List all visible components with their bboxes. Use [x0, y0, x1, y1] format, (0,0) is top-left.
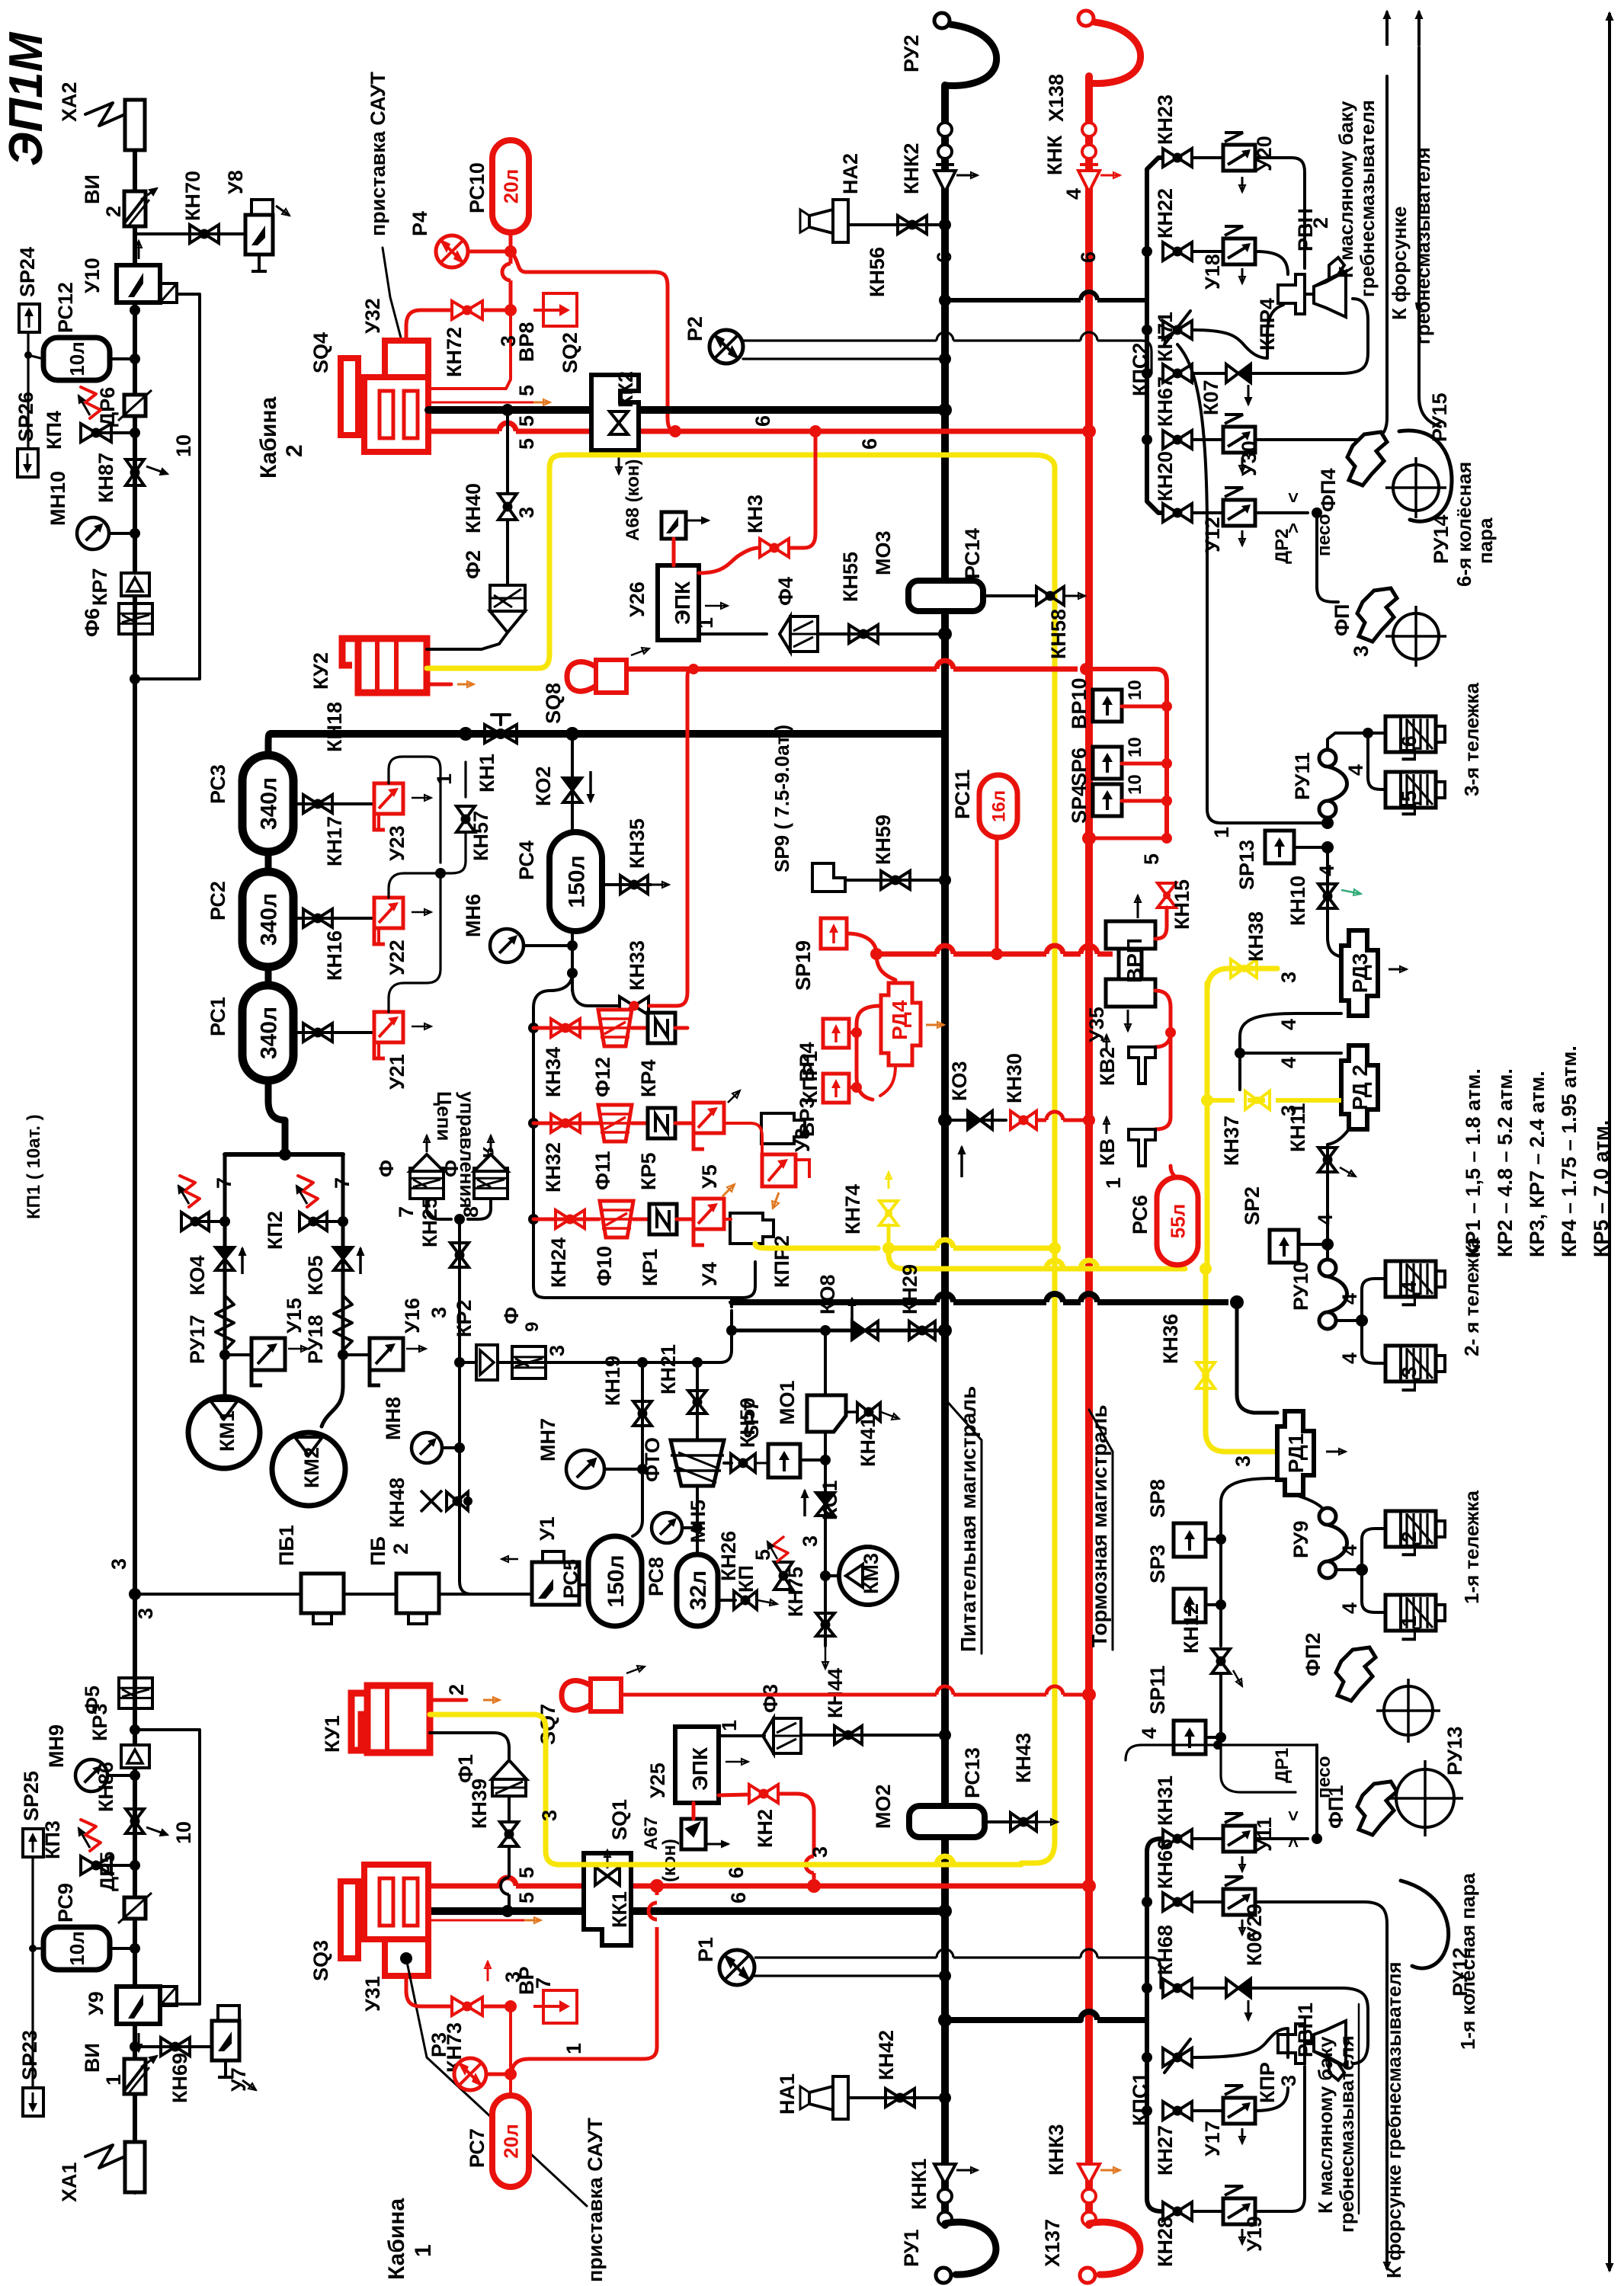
- node SP-RS12: [24, 351, 32, 359]
- wheel circle top2: [1385, 606, 1446, 667]
- component SP23: [23, 2088, 43, 2116]
- svg-text:SP23: SP23: [18, 2030, 41, 2080]
- arrow KP4: [78, 395, 90, 415]
- wire gremne collector bot: [1147, 300, 1161, 513]
- check KO8: [852, 1321, 878, 1340]
- svg-text:ВИ: ВИ: [81, 2043, 104, 2073]
- component SQ7: [562, 1679, 621, 1711]
- svg-text:КН55: КН55: [839, 552, 862, 602]
- valve KN44: [834, 1726, 862, 1744]
- svg-text:У23: У23: [386, 825, 408, 861]
- svg-text:3: 3: [1232, 1455, 1254, 1467]
- svg-text:Ф10: Ф10: [593, 1246, 616, 1286]
- wire comp header: [225, 1152, 343, 1157]
- wire yellow trunk vertical: [1052, 466, 1058, 1843]
- wire SP2 stub: [1299, 1243, 1328, 1246]
- svg-text:>: >: [1283, 523, 1304, 533]
- svg-text:У8: У8: [224, 170, 247, 194]
- node KV j: [1165, 1027, 1176, 1038]
- wire sand 2290: [1126, 1745, 1317, 1760]
- exhaust KN74: [886, 1172, 892, 1189]
- svg-text:КН34: КН34: [542, 1047, 565, 1097]
- wire U12 east: [1255, 511, 1308, 514]
- gauge MN7: [566, 1450, 604, 1488]
- wire EPK 1-line: [699, 632, 767, 636]
- svg-text:КП4: КП4: [43, 411, 66, 450]
- wire KN71-KO7: [1192, 372, 1225, 375]
- valve KN12: [1212, 1649, 1230, 1673]
- filter F7 tri: [410, 1154, 444, 1171]
- valve KN34: [551, 1019, 580, 1037]
- svg-text:Р1: Р1: [694, 1937, 717, 1962]
- svg-text:Ф4: Ф4: [774, 577, 797, 606]
- svg-text:Ф2: Ф2: [462, 550, 485, 579]
- wire KN57 join: [440, 832, 466, 873]
- cylinder C2: [1385, 1511, 1445, 1547]
- node kr2 j915: [692, 1357, 703, 1368]
- wire kn50 stub: [724, 1462, 732, 1465]
- svg-text:1: 1: [694, 617, 717, 629]
- svg-text:КНК3: КНК3: [1045, 2124, 1068, 2176]
- node colb 2770: [1142, 2105, 1152, 2116]
- coupling RU11: [1319, 750, 1347, 818]
- svg-text:4: 4: [1338, 1293, 1361, 1305]
- wire U21 pilot: [389, 873, 440, 1012]
- reservoir RS3: [242, 755, 293, 852]
- reservoir RS2: [242, 872, 293, 967]
- valve KN55: [849, 625, 878, 643]
- exhaust KN10: [1341, 889, 1361, 895]
- slash KPS2: [1164, 311, 1190, 344]
- svg-text:КО8: КО8: [816, 1275, 839, 1315]
- wire p1 upper bend: [1151, 1958, 1161, 1988]
- svg-text:РС10: РС10: [466, 162, 488, 213]
- node chain-407: [130, 305, 140, 315]
- node yel j1582: [1200, 1263, 1212, 1275]
- svg-text:КН22: КН22: [1154, 188, 1177, 239]
- node red875 j902: [688, 664, 699, 674]
- svg-text:ДР1: ДР1: [1272, 1748, 1292, 1783]
- wire F4-KN55: [818, 632, 945, 636]
- wire kp2 stub: [315, 1220, 343, 1223]
- node sp8 j: [1216, 1534, 1226, 1545]
- wire RS3 elbow: [268, 734, 271, 755]
- wire SP25-SP23: [31, 1857, 34, 2088]
- svg-text:КН75: КН75: [784, 1567, 807, 1617]
- node yel j1166: [882, 1242, 895, 1254]
- svg-text:У35: У35: [1085, 1007, 1108, 1042]
- gauge MN6: [490, 929, 524, 962]
- valve KN37: [1245, 1091, 1270, 1109]
- svg-text:SP26: SP26: [14, 392, 37, 442]
- svg-text:КН70: КН70: [181, 171, 204, 221]
- svg-text:КН2: КН2: [754, 1809, 777, 1848]
- solenoid У22: [374, 898, 403, 944]
- wire U4-KPR2: [724, 1218, 731, 1221]
- node chain-2270: [130, 1724, 140, 1735]
- solenoid У23: [374, 783, 403, 830]
- svg-text:МН7: МН7: [537, 1418, 559, 1462]
- wire KR5-U5: [675, 1122, 693, 1125]
- exhaust KN50: [756, 1460, 779, 1466]
- wire x1584 upper: [1177, 344, 1207, 533]
- svg-text:5: 5: [515, 415, 538, 427]
- filter F2: [490, 585, 525, 632]
- wire KN57 down: [464, 762, 466, 797]
- svg-text:9: 9: [522, 1322, 543, 1332]
- svg-text:приставка САУТ: приставка САУТ: [367, 72, 389, 236]
- filter F4: [780, 616, 818, 652]
- wire mn7 stub: [604, 1468, 642, 1471]
- svg-text:ФП4: ФП4: [1317, 469, 1340, 512]
- solenoid U11: [1223, 1814, 1255, 1852]
- node brake j1470: [1083, 1114, 1095, 1126]
- svg-text:SP2: SP2: [1241, 1186, 1264, 1225]
- wheel circle fp1: [1387, 1760, 1463, 1836]
- svg-text:КН41: КН41: [857, 1417, 879, 1467]
- svg-text:КК2: КК2: [614, 371, 637, 408]
- svg-text:МО1: МО1: [776, 1380, 799, 1425]
- svg-text:МН5: МН5: [687, 1500, 709, 1543]
- node u16 j: [338, 1350, 348, 1360]
- node chain-471: [130, 354, 140, 364]
- svg-text:6: 6: [725, 1867, 748, 1878]
- wire brake trunk tail: [1085, 2181, 1093, 2225]
- wire KR4 east: [675, 1026, 687, 1030]
- svg-text:1: 1: [411, 2244, 436, 2257]
- filter F10: [600, 1201, 633, 1237]
- wire KN73-j: [483, 2005, 511, 2009]
- wire ru11 up: [1328, 733, 1364, 750]
- svg-text:У9: У9: [85, 1991, 107, 2015]
- wire RS12 to chain: [110, 357, 135, 360]
- component KR7: [121, 573, 149, 596]
- wire SP13 stub: [1294, 846, 1328, 849]
- wire RU15 arc: [1399, 431, 1452, 521]
- node c6 j: [1363, 728, 1373, 738]
- component PB1: [301, 1574, 344, 1624]
- node feed j2277: [939, 1729, 951, 1741]
- wire kn39 to trunk: [501, 1846, 509, 1911]
- node X138 end circle: [1078, 11, 1094, 26]
- svg-text:У15: У15: [283, 1298, 306, 1333]
- exhaust U32 arrow: [533, 399, 550, 405]
- node red j1070: [809, 425, 822, 437]
- leader torm: [1089, 1410, 1113, 1452]
- wire kr2 row: [460, 1361, 697, 1364]
- valve KN56: [898, 216, 927, 234]
- spring KP1 zigzag: [180, 1176, 200, 1207]
- wire КН18 row: [293, 802, 374, 805]
- svg-text:КН15: КН15: [1171, 879, 1193, 930]
- valve KK2 bowtie: [610, 411, 628, 434]
- node RU2 end circle: [934, 13, 950, 28]
- svg-text:3: 3: [107, 1558, 130, 1570]
- node SAUT leader dot b: [400, 1952, 412, 1964]
- exhaust A67: [707, 1841, 729, 1847]
- svg-text:2: 2: [1309, 217, 1332, 229]
- svg-text:10: 10: [172, 1821, 195, 1844]
- svg-text:КР1: КР1: [639, 1248, 661, 1286]
- svg-text:2: 2: [282, 444, 307, 457]
- node ko8 j1083: [820, 1325, 831, 1336]
- wire red5 top: [428, 423, 1089, 431]
- svg-text:пара: пара: [1474, 517, 1497, 564]
- component VR8: [533, 293, 577, 326]
- svg-text:4: 4: [1338, 1545, 1361, 1556]
- wire u15 stub: [225, 1353, 251, 1356]
- svg-text:РС14: РС14: [961, 528, 984, 579]
- arrow K06: [1245, 2000, 1251, 2020]
- svg-text:К06: К06: [1243, 1930, 1266, 1966]
- svg-text:10: 10: [1125, 737, 1145, 757]
- check KO5: [334, 1247, 352, 1270]
- valve KN48x: [421, 1490, 442, 1512]
- wire RS9 to chain: [110, 1947, 135, 1950]
- svg-text:Ф: Ф: [500, 1307, 523, 1324]
- node rd2 j1382: [1235, 1048, 1245, 1058]
- svg-text:У10: У10: [81, 258, 104, 293]
- svg-text:ВИ: ВИ: [81, 174, 104, 204]
- svg-text:РД1: РД1: [1284, 1433, 1308, 1473]
- wire sp7 stub: [800, 1458, 825, 1462]
- svg-text:55л: 55л: [1166, 1204, 1189, 1238]
- valve KN58: [1036, 587, 1064, 605]
- valve KN2: [749, 1785, 778, 1803]
- valve КН16: [303, 1023, 332, 1042]
- exhaust KU1: [483, 1697, 500, 1703]
- wire KR1-U4: [677, 1218, 693, 1221]
- wire kn10-rd3: [1328, 937, 1343, 957]
- wire yellow bottom: [430, 1714, 1021, 1865]
- exhaust U1: [501, 1556, 518, 1562]
- check KO2: [563, 778, 581, 802]
- exhaust KN58: [1065, 593, 1085, 599]
- exhaust KNK1: [956, 2167, 978, 2173]
- leader SAUT bottom: [406, 1958, 587, 2206]
- component XA2: [125, 100, 145, 150]
- wire RS6 link: [1171, 1166, 1177, 1177]
- component KPR3: [1278, 2024, 1305, 2063]
- wire SP24-SP26: [27, 332, 29, 449]
- svg-text:КР3: КР3: [88, 1703, 111, 1741]
- node R3 junction: [504, 2068, 517, 2080]
- valve КН18: [303, 795, 332, 813]
- exhaust U3: [772, 1193, 779, 1209]
- svg-text:1: 1: [1102, 1177, 1125, 1189]
- wire right pipe top: [1417, 47, 1421, 396]
- svg-text:КР5: КР5: [637, 1152, 660, 1190]
- wire x1584 sp13: [1207, 533, 1323, 823]
- node peso dot: [1312, 507, 1322, 518]
- wire red 1line: [529, 1886, 657, 2059]
- component VR7: [533, 1990, 577, 2023]
- svg-text:РУ1: РУ1: [900, 2230, 923, 2267]
- component NA1 horn: [800, 2076, 848, 2119]
- svg-text:У20: У20: [1253, 136, 1276, 171]
- wire col b top: [1147, 1839, 1161, 1852]
- svg-text:6: 6: [858, 438, 881, 450]
- wire trunk2651: [945, 2017, 1081, 2023]
- svg-text:КН35: КН35: [626, 818, 649, 869]
- svg-text:У11: У11: [1253, 1817, 1276, 1852]
- wire U32 to KN72: [406, 310, 451, 341]
- svg-text:SP25: SP25: [20, 1771, 43, 1821]
- exhaust U31 arrow: [524, 1917, 541, 1923]
- reservoir RS7: [492, 2095, 529, 2187]
- valve KNK2: [934, 123, 956, 192]
- valve KN70: [190, 225, 219, 243]
- spring KP zig1: [773, 1537, 788, 1561]
- wheel circle fp2: [1376, 1679, 1440, 1743]
- svg-text:Ф12: Ф12: [591, 1057, 614, 1097]
- svg-text:КП2: КП2: [264, 1211, 287, 1250]
- wire 1709 start: [730, 1302, 732, 1307]
- wire RS4 down: [571, 931, 574, 991]
- wire right edge pipe: [1608, 47, 1611, 2233]
- valve KN68: [1163, 1979, 1192, 1997]
- wire mn8 stub: [442, 1446, 460, 1449]
- wire U30 east: [1255, 76, 1387, 440]
- svg-text:ЭПК: ЭПК: [671, 581, 694, 625]
- node u15 j: [219, 1350, 230, 1360]
- arrow grease top1: [1384, 11, 1390, 46]
- svg-text:ДР6: ДР6: [96, 387, 119, 427]
- svg-text:КН67: КН67: [1154, 376, 1177, 427]
- node j2508-666: [501, 1905, 514, 1917]
- component PB2: [396, 1574, 439, 1624]
- valve KN71: [1163, 364, 1192, 383]
- wire KN33 red up: [649, 667, 695, 1006]
- svg-text:К форсунке гребнесмазывателя: К форсунке гребнесмазывателя: [1382, 1961, 1405, 2278]
- svg-text:КН31: КН31: [1154, 1775, 1177, 1826]
- valve KNK1: [934, 2164, 956, 2226]
- svg-text:МН10: МН10: [46, 471, 69, 526]
- svg-text:ВР10: ВР10: [1068, 677, 1091, 729]
- arrow VI2: [141, 188, 157, 200]
- svg-text:6: 6: [751, 415, 774, 427]
- node sp7 j: [820, 1455, 831, 1465]
- svg-text:КМ3: КМ3: [860, 1553, 882, 1594]
- arrow KO8: [849, 1298, 855, 1326]
- gauge MN5: [652, 1513, 682, 1543]
- node red j1068: [807, 1879, 821, 1893]
- node sp3 j: [1216, 1599, 1226, 1610]
- wire RS2-RS1: [265, 967, 272, 985]
- svg-text:3: 3: [134, 1608, 157, 1619]
- component SP4: [1093, 784, 1122, 816]
- wire KN40 to KU2: [506, 520, 509, 585]
- wire SP19 join: [847, 933, 876, 954]
- component SP6: [1093, 747, 1122, 779]
- valve KN33: [620, 997, 649, 1015]
- svg-text:РД4: РД4: [888, 1000, 911, 1040]
- svg-text:Цепи: Цепи: [433, 1091, 456, 1141]
- filter F1: [492, 1760, 527, 1796]
- node feed j1155: [939, 874, 951, 886]
- node SP4 j: [1161, 796, 1172, 806]
- wire gremne collector b: [1145, 1852, 1149, 2198]
- wire kn41 stub: [846, 1410, 857, 1414]
- wire KO2 line: [571, 734, 574, 832]
- wire feed trunk tail: [941, 2181, 949, 2225]
- node red j865: [650, 1879, 664, 1893]
- svg-text:РС3: РС3: [207, 764, 229, 804]
- wire row1600: [533, 1218, 599, 1221]
- node R4 junction: [504, 245, 517, 258]
- wire U19 loop: [1255, 2067, 1305, 2211]
- check KO3: [968, 1111, 992, 1129]
- valve KN75: [816, 1613, 834, 1636]
- component SP2: [1270, 1230, 1299, 1263]
- node mn7 j: [637, 1464, 648, 1474]
- valve KN59: [881, 871, 910, 889]
- svg-text:КР5 – 7.0 атм.: КР5 – 7.0 атм.: [1590, 1120, 1613, 1257]
- valve KN67: [1163, 431, 1192, 449]
- reservoir RS6: [1157, 1177, 1198, 1265]
- component KV2: [1129, 1047, 1155, 1084]
- wire sp11 stub: [1206, 1736, 1221, 1739]
- svg-text:SP3: SP3: [1146, 1545, 1169, 1583]
- wire yellow kn38: [1207, 969, 1277, 991]
- wire col b bot: [1147, 2198, 1161, 2211]
- wire X137 hook bottom: [1089, 2222, 1140, 2275]
- arrow KO1: [802, 1490, 808, 1516]
- svg-text:4: 4: [1338, 1353, 1361, 1364]
- svg-text:КН20: КН20: [1154, 451, 1177, 501]
- svg-text:РС11: РС11: [951, 770, 974, 819]
- reservoir RS9: [43, 1927, 110, 1970]
- node col 577: [1142, 434, 1152, 445]
- wire SP4 stub: [1122, 799, 1167, 803]
- solenoid U4: [693, 1199, 724, 1245]
- wire mo1 link: [824, 1330, 827, 1395]
- svg-text:КР2: КР2: [453, 1299, 476, 1337]
- svg-text:КН18: КН18: [323, 702, 346, 752]
- wire KN33 branch: [572, 973, 617, 1006]
- node j963-751: [565, 727, 579, 741]
- valve KK1 bowtie: [595, 1867, 620, 1885]
- valve KN19: [633, 1401, 652, 1426]
- exhaust У23: [412, 795, 431, 801]
- exhaust KN86: [146, 1827, 168, 1836]
- svg-text:ФП2: ФП2: [1302, 1633, 1325, 1676]
- exhaust KN35: [649, 882, 669, 888]
- svg-text:РС5: РС5: [559, 1559, 582, 1599]
- node c12 j: [1356, 1564, 1368, 1576]
- valve KN31: [1163, 1830, 1192, 1848]
- svg-text:4: 4: [1277, 1019, 1300, 1030]
- wire red 878 east: [626, 661, 1078, 669]
- valve KN69: [161, 2038, 190, 2056]
- wire red 1100 west: [1089, 837, 1167, 840]
- svg-text:КН32: КН32: [542, 1142, 565, 1193]
- node yel j1444: [1201, 1094, 1213, 1106]
- cylinder C5: [1385, 772, 1445, 808]
- wire U11 east: [1255, 1837, 1308, 1840]
- wire F12-KR4: [632, 1026, 648, 1030]
- node peso dot b: [1312, 1833, 1322, 1844]
- wire F10-KR1: [633, 1218, 649, 1221]
- wire KU1 black east: [430, 1733, 509, 1760]
- svg-text:<: <: [1283, 1811, 1304, 1821]
- svg-text:НА2: НА2: [839, 153, 862, 194]
- wire RU12 arc: [1401, 1881, 1449, 1968]
- node feed j1470: [938, 1113, 952, 1127]
- component SP11: [1174, 1721, 1206, 1754]
- svg-text:1: 1: [718, 1720, 741, 1731]
- node col 330: [1142, 246, 1152, 257]
